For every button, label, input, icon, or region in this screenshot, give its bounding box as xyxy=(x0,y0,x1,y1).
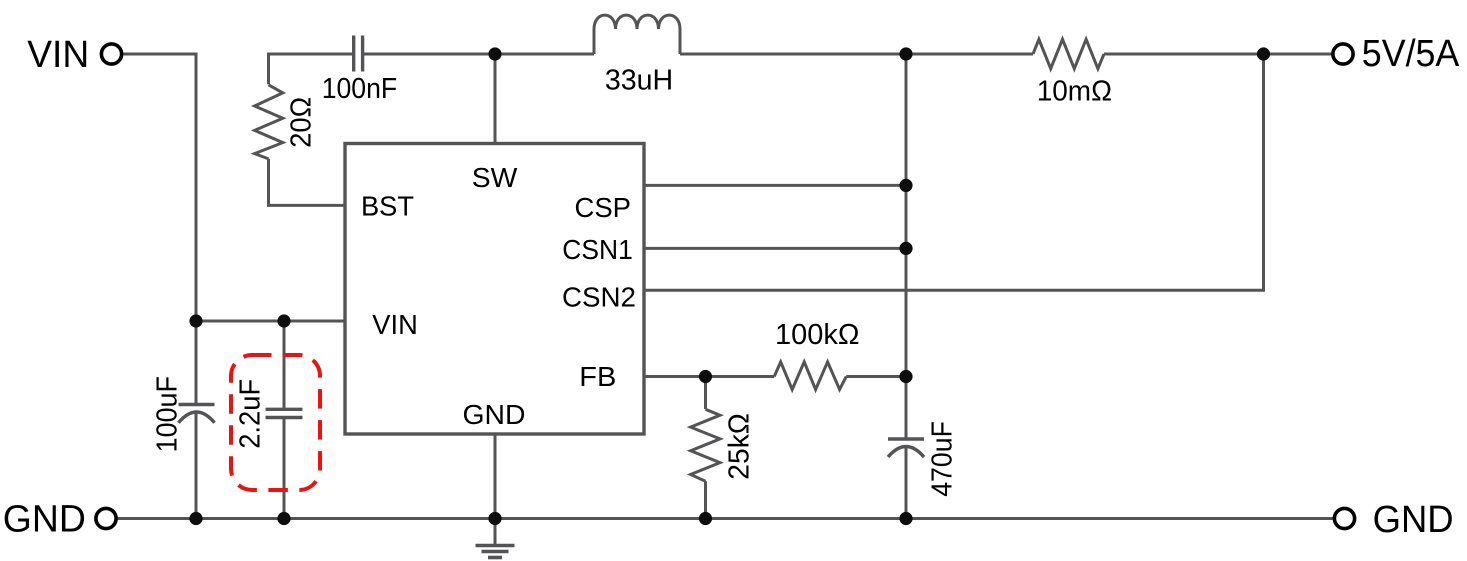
ground symbol xyxy=(476,546,515,558)
junction dot inductor output xyxy=(899,47,912,60)
IC U1 body xyxy=(345,144,644,435)
junction dot FB node xyxy=(699,370,712,383)
wire 2.2uF top lead xyxy=(283,321,286,409)
wire SW stub xyxy=(494,54,497,144)
junction dot rail GND pin xyxy=(488,512,501,525)
svg-text:2.2uF: 2.2uF xyxy=(235,379,267,449)
svg-text:GND: GND xyxy=(3,499,86,541)
terminal GND right circle xyxy=(1334,508,1354,528)
wire CSN1 pin xyxy=(644,247,906,250)
capacitor C 2.2uF plates xyxy=(266,409,303,417)
wire CSP pin xyxy=(644,184,906,187)
svg-text:CSN2: CSN2 xyxy=(562,282,636,313)
capacitor C 470uF plates xyxy=(888,439,924,457)
terminal GND left circle xyxy=(96,508,116,528)
junction dot VIN node xyxy=(189,314,202,327)
svg-text:10mΩ: 10mΩ xyxy=(1037,75,1112,107)
wire BST loop left/top xyxy=(269,54,354,84)
wire 10mohm to 5V terminal xyxy=(1104,53,1333,56)
wire GND rail xyxy=(118,517,1334,520)
wire 100kohm right lead xyxy=(846,375,906,378)
junction dot rail 2.2uF xyxy=(277,512,290,525)
terminal 5V/5A circle xyxy=(1333,44,1353,64)
wire 2.2uF bottom lead xyxy=(283,418,286,519)
junction dot SW node xyxy=(488,47,501,60)
svg-text:FB: FB xyxy=(579,361,616,392)
resistor R 100kohm xyxy=(774,362,846,390)
svg-text:20Ω: 20Ω xyxy=(286,97,318,148)
svg-text:CSN1: CSN1 xyxy=(562,234,633,265)
wire GND pin stub xyxy=(494,434,497,545)
svg-text:470uF: 470uF xyxy=(926,421,958,497)
resistor R 10mohm xyxy=(1033,39,1104,68)
svg-text:33uH: 33uH xyxy=(605,65,673,97)
wire 25kohm bottom lead xyxy=(704,481,707,518)
wire VIN pin xyxy=(196,320,345,323)
svg-text:VIN: VIN xyxy=(27,34,89,76)
junction dot output terminal node xyxy=(1257,47,1270,60)
junction dot rail 470uF xyxy=(899,512,912,525)
terminal VIN circle xyxy=(101,44,121,64)
wire 20ohm bottom to BST pin xyxy=(269,159,346,206)
capacitor C 100uF plates xyxy=(179,405,215,423)
svg-text:GND: GND xyxy=(1373,499,1454,541)
wire FB pin xyxy=(644,375,774,378)
wire inductor to 10mohm xyxy=(680,53,1033,56)
junction dot 2.2uF top xyxy=(277,314,290,327)
wire output node vertical upper xyxy=(905,54,908,439)
svg-text:100uF: 100uF xyxy=(151,376,183,452)
svg-text:GND: GND xyxy=(463,399,526,430)
red dashed highlight box around 2.2uF xyxy=(231,355,320,490)
junction dot rail 25k xyxy=(699,512,712,525)
junction dot CSP xyxy=(899,179,912,192)
resistor R 20ohm xyxy=(255,85,283,159)
wire 100uF bottom to GND rail xyxy=(195,413,198,519)
svg-text:100nF: 100nF xyxy=(322,73,398,105)
wire VIN terminal to corner xyxy=(123,54,196,405)
inductor L 33uH xyxy=(594,15,680,54)
wire 25kohm top lead xyxy=(704,377,707,410)
svg-text:SW: SW xyxy=(472,162,518,193)
junction dot CSN1 xyxy=(899,242,912,255)
wire CSN2 pin to output terminal xyxy=(644,54,1264,290)
svg-text:VIN: VIN xyxy=(372,309,418,340)
svg-text:25kΩ: 25kΩ xyxy=(724,413,756,480)
wire 100nF right plate to inductor xyxy=(363,53,594,56)
capacitor C 100nF plates xyxy=(354,36,363,72)
svg-text:5V/5A: 5V/5A xyxy=(1362,33,1460,75)
svg-text:BST: BST xyxy=(361,190,414,221)
resistor R 25kohm xyxy=(691,409,720,481)
junction dot rail 100uF xyxy=(189,512,202,525)
svg-text:100kΩ: 100kΩ xyxy=(775,319,860,351)
svg-text:CSP: CSP xyxy=(575,192,632,223)
wire 470uF bottom to GND rail xyxy=(905,447,908,519)
junction dot 100k right xyxy=(899,370,912,383)
